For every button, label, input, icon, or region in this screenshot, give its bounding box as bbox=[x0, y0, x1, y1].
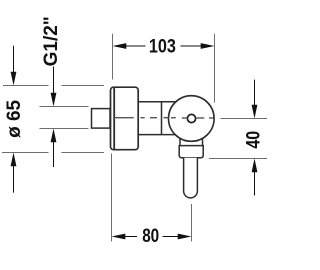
svg-text:80: 80 bbox=[142, 226, 159, 247]
centerline horizontal bbox=[113, 117, 214, 119]
neck under handle bbox=[180, 138, 203, 146]
wall stub G1/2 bbox=[92, 109, 111, 129]
G1/2 leader arrow bottom bbox=[53, 139, 55, 167]
dimension 103 line with arrows bbox=[122, 45, 205, 47]
40 leader arrow top bbox=[254, 80, 256, 109]
collar bbox=[179, 146, 203, 158]
svg-text:103: 103 bbox=[149, 36, 176, 57]
outlet tube bbox=[184, 158, 198, 198]
dimension 80 line with arrows bbox=[122, 236, 182, 238]
40 leader arrow bottom bbox=[254, 168, 256, 195]
103 arrowhead right bbox=[201, 43, 215, 49]
flange face edge line bbox=[113, 88, 115, 149]
dia 65 leader arrow top bbox=[13, 46, 15, 76]
103 arrowhead left bbox=[113, 43, 127, 49]
dia 65 extension lines bbox=[2, 86, 104, 153]
svg-text:ø 65: ø 65 bbox=[4, 99, 25, 137]
G1/2 leader arrow top bbox=[53, 67, 55, 98]
dia 65 leader arrow bottom bbox=[13, 163, 15, 193]
flange disc side view bbox=[111, 87, 139, 150]
80 arrowhead right bbox=[178, 234, 192, 240]
centerline right / 40 top reference bbox=[221, 118, 268, 120]
dimension 80 extension lines bbox=[112, 154, 192, 242]
valve body bbox=[138, 102, 176, 135]
handle hub small circle bbox=[187, 114, 195, 122]
svg-text:G1/2": G1/2" bbox=[41, 16, 62, 66]
40 bottom extension line bbox=[209, 158, 267, 160]
G1/2 extension lines bbox=[40, 107, 89, 129]
svg-text:40: 40 bbox=[243, 131, 264, 149]
dimension 103 extension lines bbox=[113, 34, 215, 103]
80 arrowhead left bbox=[112, 234, 126, 240]
handle circle bbox=[169, 96, 215, 142]
